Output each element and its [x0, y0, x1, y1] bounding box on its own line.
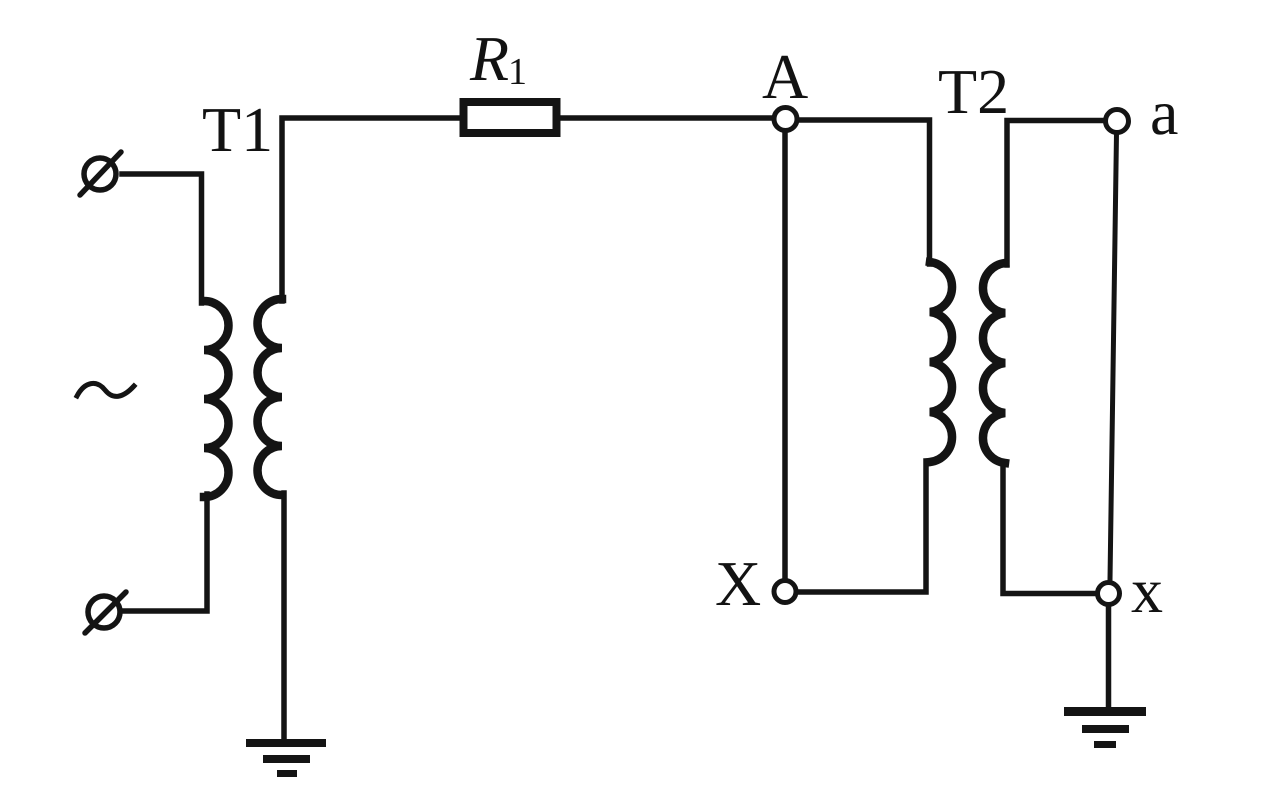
svg-text:A: A [762, 41, 808, 112]
terminal x [1098, 583, 1120, 605]
wire: terminal a down to terminal x [1110, 133, 1117, 580]
terminal P1 (top-left AC input, circle with slash) [80, 152, 121, 195]
wire: node A down to terminal X [782, 131, 788, 579]
transformer T2 primary winding [930, 262, 952, 462]
wire: top-left terminal to T1 primary top [122, 174, 202, 303]
terminal X [774, 581, 796, 603]
svg-text:R: R [469, 23, 509, 94]
wire: terminal x to right ground [1106, 605, 1112, 711]
resistor R1 [464, 102, 557, 133]
wire: T2 primary bottom to terminal X [798, 461, 926, 592]
transformer T1 primary winding [204, 301, 229, 497]
svg-text:T1: T1 [202, 94, 273, 165]
label R1 [469, 23, 527, 94]
ground (right, below terminal x) [1064, 712, 1146, 745]
wire: T2 secondary bottom to terminal x [1003, 462, 1096, 594]
transformer T2 secondary winding [983, 263, 1005, 463]
svg-text:x: x [1131, 555, 1163, 626]
ground (left, below T1 secondary) [246, 743, 326, 774]
wire: node A to T2 primary top [799, 120, 930, 264]
svg-text:a: a [1150, 77, 1178, 148]
terminal a [1106, 110, 1129, 133]
wire: resistor R1 to node A [560, 115, 772, 121]
wire: T1 secondary bottom to left ground [281, 493, 287, 739]
AC source tilde [77, 383, 134, 396]
wire: T1 secondary top to resistor R1 [282, 118, 460, 301]
svg-text:1: 1 [508, 51, 527, 93]
terminal P2 (bottom-left AC input, circle with slash) [85, 592, 126, 633]
wire: T2 secondary top to terminal a [1007, 121, 1104, 266]
node A terminal [774, 108, 797, 131]
transformer T1 secondary winding [258, 299, 283, 495]
svg-text:T2: T2 [938, 56, 1009, 127]
wire: T1 primary bottom to bottom-left terminal [121, 494, 207, 611]
svg-text:X: X [715, 548, 761, 619]
